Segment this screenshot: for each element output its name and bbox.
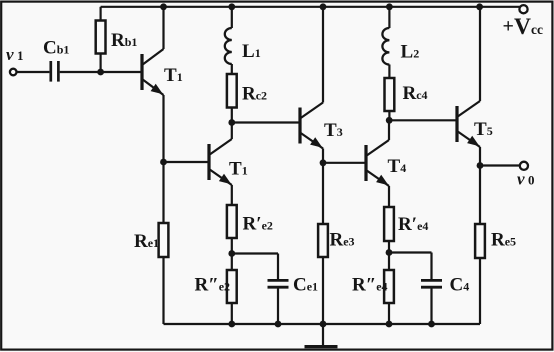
wire second stage collector up [231,123,233,140]
label Re3 [330,230,355,251]
svg-text:Re3: Re3 [330,230,355,251]
wire T1 collector to rail [162,7,164,49]
resistor Re5 [475,224,485,324]
junction bottom rail / R''e2 [228,321,235,328]
svg-text:Rc2: Rc2 [242,84,267,105]
junction T5 emitter / output [477,162,484,169]
svg-text:T1: T1 [164,65,183,86]
resistor Rc2 [227,74,237,123]
terminal v0 output [520,162,528,170]
resistor R''e4 [384,270,394,324]
junction base node / Rb1 [97,69,104,76]
svg-text:T3: T3 [324,120,343,141]
svg-text:Rc4: Rc4 [403,83,428,104]
label R''e4 [352,275,388,296]
label R'e2 [243,214,273,235]
svg-text:Re5: Re5 [491,230,516,251]
label R'e4 [398,214,428,235]
resistor Rb1 [96,7,106,72]
junction top rail / T1 collector [160,3,167,10]
capacitor Ce1 [268,280,289,324]
label +Vcc [503,14,543,40]
wire T1 emitter down [162,95,164,223]
label Cb1 [43,37,69,58]
terminal +Vcc [519,5,527,13]
junction T1 emitter / second stage base [160,159,167,166]
label T3 [324,120,343,141]
svg-text:L2: L2 [401,42,420,63]
junction Rc4 / T4 collector [386,117,393,124]
junction top rail / L2 [386,3,393,10]
wire emitter node to second stage base [164,161,208,163]
svg-text:0: 0 [528,172,535,187]
label v1 [6,45,24,64]
wire Rc2 node to T3 base [232,121,299,123]
junction R'e4 / R''e4 / C4 [386,249,393,256]
wire T5 emitter down [479,147,481,224]
ground [305,324,338,347]
label Re5 [491,230,516,251]
resistor R'e4 [384,207,394,270]
svg-text:T1: T1 [229,159,248,180]
svg-text:Ce1: Ce1 [293,275,318,296]
label R''e2 [195,275,231,296]
wire ground bottom rail [164,323,481,325]
svg-text:1: 1 [17,48,24,63]
svg-text:Vcc: Vcc [514,14,543,40]
label C4 [450,275,470,296]
label v0 [517,169,535,188]
junction top rail / L1 [228,3,235,10]
label Re1 [134,231,159,252]
svg-text:R′e4: R′e4 [398,214,428,235]
wire v1 to Cb1 [17,71,50,73]
label L1 [242,41,261,62]
label T4 [388,156,407,177]
transistor T5 [457,101,480,147]
svg-text:L1: L1 [242,41,261,62]
transistor T4 [366,140,389,186]
label Rb1 [111,30,137,51]
wire T5 collector to rail [479,7,481,101]
svg-text:C4: C4 [450,275,470,296]
wire second stage emitter down [231,185,233,205]
wire T4 emitter down [388,186,390,207]
junction bottom rail / Ce1 [275,321,282,328]
junction R'e2 / R''e2 / Ce1 [228,250,235,257]
junction top rail / T3 collector [320,3,327,10]
svg-text:R″e2: R″e2 [195,275,231,296]
svg-text:+: + [503,16,514,38]
label T1 second [229,159,248,180]
label T5 [474,119,493,140]
resistor Re3 [318,224,328,324]
transistor T3 [300,103,323,149]
wire T3 emitter down [322,149,324,225]
wire T4 collector up [388,120,390,140]
svg-text:R″e4: R″e4 [352,275,388,296]
svg-text:R′e2: R′e2 [243,214,273,235]
resistor Rc4 [385,78,395,120]
wire emitter node to T4 base [323,162,365,164]
wire Rc4 node to T5 base [389,119,455,121]
terminal v1 input [10,69,17,76]
junction Rc2 / second stage collector [228,119,235,126]
resistor R'e2 [227,205,237,270]
label Rc4 [403,83,428,104]
label L2 [401,42,420,63]
wire node to C4 [389,253,432,280]
label T1 [164,65,183,86]
transistor T1 (second stage) [209,139,232,185]
wire output node to v0 terminal [480,164,520,166]
inductor L1 [225,7,232,74]
transistor T1 (input stage) [142,49,164,95]
svg-text:v: v [6,45,14,64]
junction bottom rail / R''e4 [386,321,393,328]
wire T3 collector to rail [322,7,324,103]
svg-text:T5: T5 [474,119,493,140]
capacitor Cb1 [51,61,59,82]
junction top rail / T5 collector [476,3,483,10]
junction T3 emitter / T4 base [320,159,327,166]
wire node to Ce1 [232,254,278,280]
resistor R''e2 [227,270,237,324]
svg-text:Rb1: Rb1 [111,30,137,51]
label Rc2 [242,84,267,105]
svg-text:Cb1: Cb1 [43,37,69,58]
junction bottom rail / C4 [428,321,435,328]
capacitor C4 [421,280,442,324]
junction bottom rail / Re3 / ground [320,321,327,328]
resistor Re1 [159,223,169,324]
wire Cb1 to T1 base [60,71,141,73]
label Ce1 [293,275,318,296]
svg-text:Re1: Re1 [134,231,159,252]
inductor L2 [382,7,389,78]
wire +Vcc top rail [101,6,520,8]
svg-text:T4: T4 [388,156,407,177]
svg-text:v: v [517,169,525,188]
